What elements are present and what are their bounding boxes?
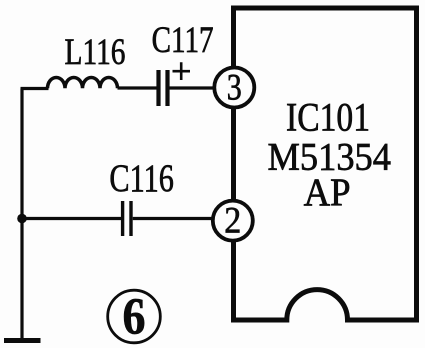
svg-text:AP: AP [304, 171, 351, 214]
capacitor C116 plates [123, 201, 131, 236]
label IC101 line 1 [286, 95, 370, 140]
capacitor C117 plates [159, 70, 168, 106]
svg-text:C116: C116 [109, 157, 173, 200]
label C116 [109, 157, 173, 200]
label L116 [65, 32, 126, 73]
polarity plus sign of C117 [173, 62, 191, 80]
svg-text:2: 2 [224, 201, 241, 242]
label IC101 line 2 (part number M51354) [268, 135, 392, 178]
svg-text:L116: L116 [65, 32, 126, 73]
pin 2 circle [213, 201, 253, 242]
svg-text:C117: C117 [152, 20, 214, 61]
pin 3 circle [214, 68, 254, 109]
inductor L116 coil [48, 78, 118, 89]
IC IC101 body outline with bottom notch [234, 8, 417, 320]
node 6 circled net number [108, 289, 161, 346]
svg-text:IC101: IC101 [286, 95, 370, 140]
wire left vertical (junction to ground / up to L116 corner) [20, 89, 23, 339]
ground symbol bar [4, 338, 41, 343]
wire L116 to C117 [118, 86, 157, 89]
junction dot [17, 214, 27, 224]
svg-text:3: 3 [227, 68, 242, 109]
svg-text:6: 6 [123, 289, 146, 346]
wire C117 to pin 3 [170, 86, 217, 89]
wire C116 to pin 2 [133, 217, 215, 220]
label IC101 line 3 (AP suffix) [304, 171, 351, 214]
wire top horizontal left stub (corner to L116) [21, 87, 49, 90]
wire C116 row: junction to C116 [21, 217, 122, 220]
label C117 [152, 20, 214, 61]
